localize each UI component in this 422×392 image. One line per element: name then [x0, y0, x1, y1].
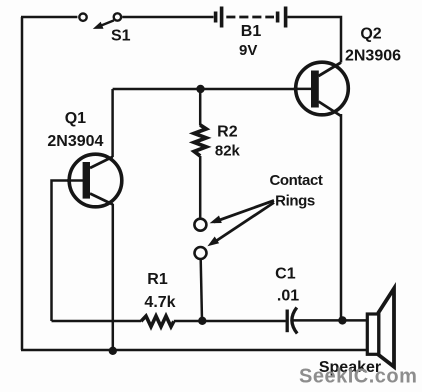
- arrow: to upper contact ring: [210, 201, 274, 224]
- speaker: [367, 289, 394, 367]
- switch S1: [79, 13, 121, 29]
- svg-text:2N3904: 2N3904: [47, 133, 103, 150]
- wire: Q1 base corner wire: [52, 181, 84, 322]
- transistor Q2: [294, 62, 349, 116]
- wire: R2 to upper contact ring: [199, 156, 202, 219]
- transistor Q1: [67, 154, 122, 207]
- wire: S1 to battery B1: [122, 16, 213, 19]
- svg-text:Q2: Q2: [360, 25, 381, 42]
- wire: C1 to speaker node: [294, 319, 368, 322]
- svg-text:Contact: Contact: [269, 172, 322, 189]
- wire: bottom rail horizontal: [21, 349, 367, 352]
- wire: Q1 collector to Q2 base: [113, 88, 311, 91]
- svg-text:C1: C1: [275, 266, 296, 283]
- battery B1: [214, 7, 288, 28]
- node: junction dot bottom rail / Q1 emitter: [109, 347, 117, 355]
- wire: Q2 collector down to C1/speaker node: [340, 114, 343, 320]
- svg-text:.01: .01: [277, 288, 299, 305]
- capacitor C1: [287, 308, 297, 334]
- wire: Q1 collector up to base-line of Q2: [111, 89, 114, 157]
- wire: battery to Q2 emitter (top right corner): [288, 17, 342, 63]
- contact ring upper: [194, 219, 206, 231]
- svg-text:9V: 9V: [239, 42, 257, 59]
- wire: lower contact ring to R1/C1 node: [201, 259, 202, 321]
- svg-text:R2: R2: [217, 123, 238, 140]
- svg-text:SeekIC.com: SeekIC.com: [299, 365, 417, 387]
- svg-text:B1: B1: [241, 23, 262, 40]
- resistor R1: [141, 316, 174, 327]
- wire: R1 to C1: [174, 320, 286, 323]
- wire: node to R2: [199, 89, 202, 126]
- svg-text:4.7k: 4.7k: [144, 294, 175, 311]
- svg-text:S1: S1: [111, 27, 131, 44]
- svg-text:R1: R1: [147, 271, 168, 288]
- resistor R2: [194, 125, 206, 156]
- svg-text:2N3906: 2N3906: [345, 48, 401, 65]
- svg-text:Rings: Rings: [275, 192, 315, 209]
- svg-text:Q1: Q1: [65, 110, 86, 127]
- node: junction dot contact-ring wire on R1-C1 wire: [198, 317, 206, 325]
- wire: Q1 emitter down to bottom rail: [112, 204, 115, 350]
- node: junction dot Q2 collector / C1 / speaker: [338, 316, 346, 324]
- node: junction dot R2 top: [196, 85, 204, 93]
- wire: top-left segment to S1: [21, 16, 77, 19]
- wire: R1 left wire: [52, 320, 142, 323]
- contact ring lower: [195, 247, 207, 259]
- arrow: to lower contact ring: [207, 203, 274, 247]
- wire: left rail vertical: [21, 17, 24, 350]
- svg-text:82k: 82k: [215, 142, 241, 159]
